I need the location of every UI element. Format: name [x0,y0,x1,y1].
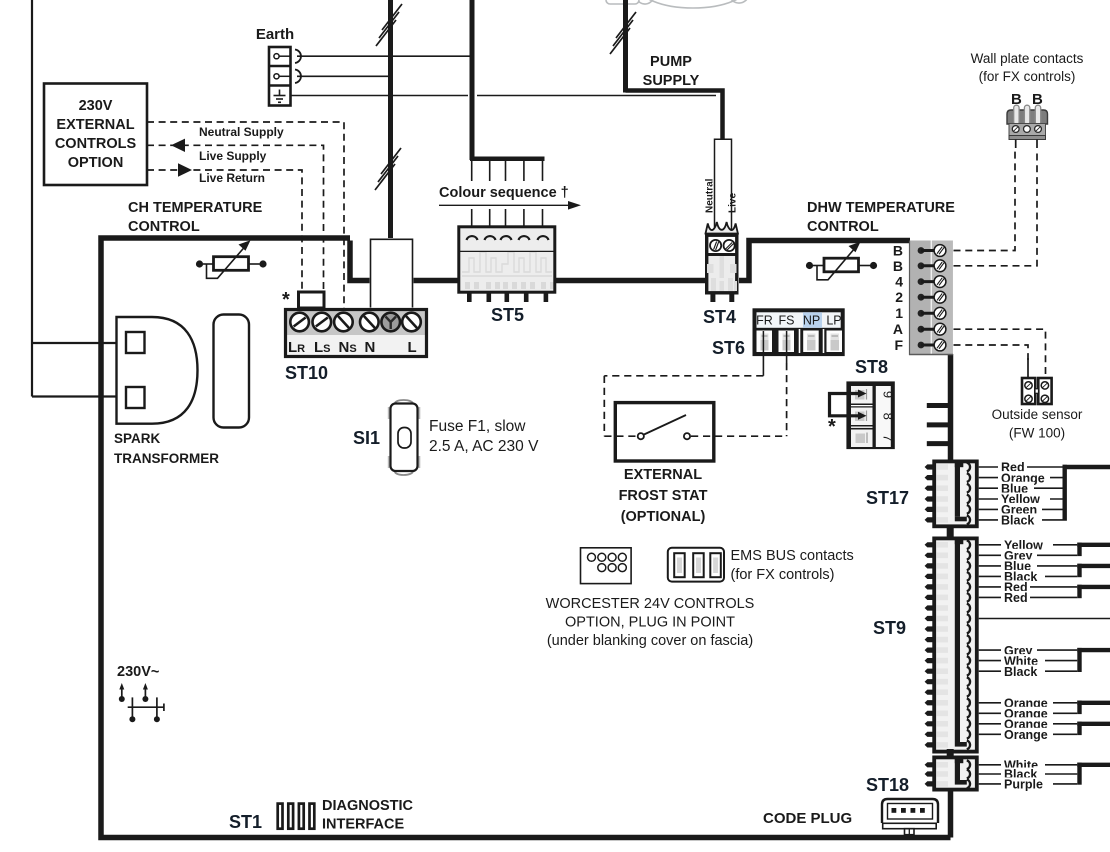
svg-text:ST5: ST5 [491,305,524,325]
svg-text:*: * [282,289,290,311]
bracket 545-555 [1077,543,1081,557]
wire Orange 703 [979,702,1078,704]
svg-text:SUPPLY: SUPPLY [643,73,700,89]
terminal block ST10 [284,308,428,358]
box: 230V EXTERNAL CONTROLS OPTION [44,84,147,186]
svg-text:Neutral Supply: Neutral Supply [199,125,284,139]
svg-text:OPTION: OPTION [68,155,124,171]
wire Black 520 [979,519,1063,521]
switch inside frost stat [638,415,690,439]
svg-text:*: * [828,416,836,438]
svg-text:OPTION, PLUG IN POINT: OPTION, PLUG IN POINT [565,615,735,631]
component: spark transformer D-shape [117,317,198,424]
arrow on Live Supply (left) [171,139,185,152]
svg-text:A: A [893,321,903,337]
wire White 765 [979,764,1078,766]
svg-text:4: 4 [895,274,903,290]
svg-text:WORCESTER 24V CONTROLS: WORCESTER 24V CONTROLS [546,596,755,612]
wire Yellow 499 [979,498,1063,500]
wire Red 587 [979,586,1078,588]
svg-text:230V~: 230V~ [117,664,159,680]
comb stubs on right bus [927,406,948,444]
svg-text:Black: Black [1004,665,1037,679]
svg-text:ST18: ST18 [866,775,909,795]
net: F outside sensor dashed [954,345,1029,360]
svg-text:CODE PLUG: CODE PLUG [763,810,852,827]
svg-text:7: 7 [881,434,896,441]
connector ST8 [846,381,895,449]
svg-text:CH TEMPERATURE: CH TEMPERATURE [128,200,263,216]
svg-text:Black: Black [1001,514,1034,528]
svg-text:Live: Live [728,193,739,213]
svg-text:(under blanking cover on fasci: (under blanking cover on fascia) [547,633,753,649]
svg-text:Wall plate contacts: Wall plate contacts [971,51,1084,66]
svg-text:Red: Red [1004,591,1028,605]
bracket 650-671 [1077,648,1081,672]
wire: dashed Live Supply [147,145,324,308]
wire White 661 [979,660,1078,662]
bus nub ST17-ST9 [947,526,954,538]
svg-text:(for FX controls): (for FX controls) [731,567,835,583]
svg-text:Live Supply: Live Supply [199,149,267,163]
wire: left mains drop x=32 to spark transformer [32,0,126,397]
svg-text:Purple: Purple [1004,778,1043,792]
wire Orange 713 [979,712,1078,714]
svg-text:230V: 230V [79,98,113,114]
wire Black 576 [979,575,1078,577]
svg-text:SPARK: SPARK [114,431,161,446]
svg-text:L: L [408,339,417,356]
wire Purple 784 [979,783,1078,785]
svg-text:FROST STAT: FROST STAT [619,488,708,504]
svg-text:Orange: Orange [1004,728,1048,742]
wire: vertical feed to ST5 bar x=472 [470,0,545,160]
svg-text:ST6: ST6 [712,338,745,358]
bracket 566-576 [1077,564,1081,578]
bus nub ST9-ST18 [947,749,954,757]
connector ST4 [705,222,739,302]
connector: EMS BUS contacts [668,548,724,582]
component: spark transformer bar [214,315,250,428]
jumper wire on ST8 pins 9-8 [830,390,867,420]
main PCB outline [101,238,951,838]
svg-text:ST4: ST4 [703,307,736,327]
wire unlabelled 619 [979,618,1110,620]
svg-text:DHW TEMPERATURE: DHW TEMPERATURE [807,200,955,216]
net: FS to frost stat [786,352,788,363]
wire Black 671 [979,670,1078,672]
wire Grey 555 [979,554,1078,556]
svg-text:Live Return: Live Return [199,171,265,185]
svg-text:B: B [893,243,903,259]
bracket 724-734 [1077,722,1081,736]
wire: earth row1 [297,55,470,57]
connector ST18 [925,756,979,792]
svg-text:EXTERNAL: EXTERNAL [56,117,134,133]
frost stat dashed leads [604,435,637,437]
svg-text:Neutral: Neutral [705,178,716,213]
svg-text:FS: FS [779,314,795,328]
wires: ST5 to bar [472,161,543,226]
wire Green 509 [979,508,1063,510]
net: A outside sensor dashed [954,329,1046,374]
wire Red 467 [979,466,1063,468]
wire: pump supply feed thick L to channel [626,91,723,140]
svg-text:EXTERNAL: EXTERNAL [624,467,702,483]
svg-text:CONTROL: CONTROL [128,219,200,235]
wire Orange 724 [979,723,1078,725]
terminal strip B B 4 2 1 A F [909,241,953,356]
svg-text:Earth: Earth [256,26,294,43]
fuse SI1 [388,400,421,475]
wire Orange 734 [979,733,1078,735]
svg-text:NP: NP [803,314,820,328]
svg-text:1: 1 [895,305,903,321]
svg-text:CONTROLS: CONTROLS [55,136,137,152]
wire: vertical mains x=390 (hatched twice) [375,0,402,240]
svg-text:ST10: ST10 [285,363,328,383]
connector arcs on earth wires [295,50,301,84]
net: B wall plate dashed lines [954,150,1038,266]
wire: earth row3 [291,95,469,97]
svg-text:TRANSFORMER: TRANSFORMER [114,451,219,466]
wire Blue 566 [979,565,1078,567]
connector ST5 [458,226,557,303]
plug point box: Worcester 24V controls [581,548,632,584]
pump graphic (cut off at top) [603,0,750,8]
svg-text:LP: LP [826,314,841,328]
ST10 screws [290,313,421,332]
svg-text:Fuse F1, slow: Fuse F1, slow [429,418,526,435]
wire Blue 488 [979,487,1063,489]
svg-text:B: B [893,258,903,274]
svg-text:ST8: ST8 [855,357,888,377]
connector ST17 [925,460,979,529]
svg-text:DIAGNOSTIC: DIAGNOSTIC [322,798,414,814]
svg-text:8: 8 [881,413,896,420]
box: external frost stat [615,403,714,461]
svg-text:SI1: SI1 [353,428,380,448]
svg-text:FR: FR [756,314,773,328]
connector: wall plate plug [1007,105,1048,148]
component: code plug [882,799,938,835]
svg-text:(for FX controls): (for FX controls) [979,69,1076,84]
white channel over N/L wires into ST10 [370,238,414,308]
net: FR to frost stat [762,352,764,376]
wire Black 774 [979,773,1078,775]
svg-text:F: F [894,337,903,353]
svg-text:2.5 A, AC 230 V: 2.5 A, AC 230 V [429,438,539,455]
svg-text:Colour sequence †: Colour sequence † [439,185,569,201]
arrow on Live Return (right) [178,163,192,176]
symbol: 230V mains input [122,687,165,717]
terminal blocks: outside sensor [1022,378,1052,404]
svg-text:ST1: ST1 [229,812,262,832]
star link box on LR [299,292,325,308]
svg-text:PUMP: PUMP [650,54,692,70]
connector ST6 [753,308,845,356]
wire: mains cable vertical at x=625 (hatched) [610,0,636,93]
component: diagnostic interface connector [278,804,315,829]
svg-text:CONTROL: CONTROL [807,219,879,235]
wire: dashed Neutral Supply [147,122,344,308]
svg-text:Outside sensor: Outside sensor [992,407,1083,422]
connector ST9 [925,537,979,754]
svg-text:(FW 100): (FW 100) [1009,426,1065,441]
bracket 587-597 [1077,585,1081,599]
wire Orange 478 [979,477,1063,479]
wire: earth row2 [297,75,389,77]
pump neutral/live white channel [715,139,732,232]
strip contacts [918,245,946,351]
svg-text:2: 2 [895,289,903,305]
bracket 467-520 [1062,465,1066,521]
svg-text:ST17: ST17 [866,488,909,508]
svg-text:EMS BUS contacts: EMS BUS contacts [731,548,854,564]
bracket 765-784 [1077,763,1081,785]
svg-text:9: 9 [881,391,896,398]
bracket 703-713 [1077,701,1081,715]
terminal block: Earth [256,26,294,106]
wire Yellow 545 [979,544,1078,546]
svg-text:INTERFACE: INTERFACE [322,817,405,833]
wire: dashed Live Return [147,170,302,291]
wire Grey 650 [979,649,1078,651]
svg-text:ST9: ST9 [873,618,906,638]
svg-text:N: N [365,339,376,356]
potentiometer: CH temperature control [196,240,267,278]
potentiometer: DHW temperature control [806,242,877,280]
ST10 terminal labels LR LS NS N L [288,339,417,356]
wire Red 597 [979,596,1078,598]
svg-text:(OPTIONAL): (OPTIONAL) [621,509,706,525]
